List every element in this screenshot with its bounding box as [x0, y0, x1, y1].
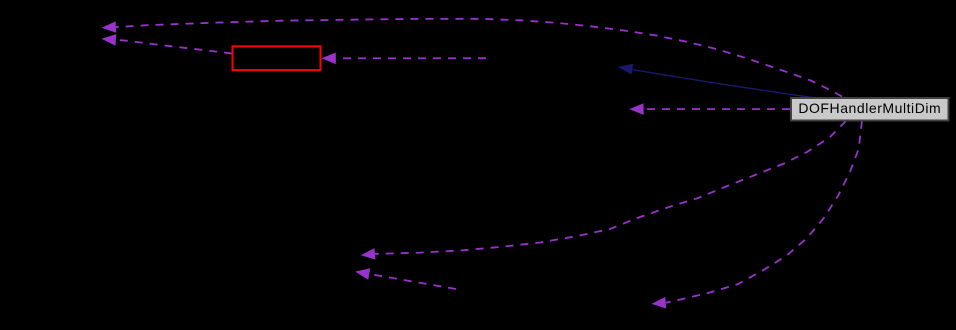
arrowhead E: [361, 248, 376, 260]
edge A: DOFHandlerMultiDim to top-left node (dashed darkorchid curve): [116, 19, 842, 97]
edge F: hidden node to hidden node (short dashed line bottom-middle): [369, 274, 456, 289]
arrowhead B (top-left lower): [102, 34, 117, 46]
arrowhead A (top-left upper): [102, 21, 117, 32]
arrowhead D: [629, 103, 643, 115]
arrowhead C (at red box right edge): [322, 53, 336, 65]
edge B: red box to top-left node (dashed darkorchid): [116, 40, 232, 54]
arrowhead G: [652, 297, 667, 309]
blue arrowhead: [618, 64, 634, 75]
edge E: DOFHandlerMultiDim to hidden node bottom-middle (long dashed curve): [375, 121, 846, 254]
edge G: DOFHandlerMultiDim to hidden node bottom (dashed curve): [666, 121, 862, 303]
inheritance edge: DOFHandlerMultiDim to hidden base class (solid midnightblue): [632, 70, 812, 98]
edge D: DOFHandlerMultiDim to hidden node left (dashed darkorchid horizontal): [644, 108, 790, 110]
svg-text:DOFHandlerMultiDim: DOFHandlerMultiDim: [798, 100, 941, 116]
arrowhead F: [355, 268, 370, 279]
red box node (empty, red border): [233, 46, 321, 70]
edge C: hidden node to red box (dashed darkorchid horizontal): [336, 57, 486, 59]
node DOFHandlerMultiDim (current class, gray fill): [791, 98, 949, 121]
